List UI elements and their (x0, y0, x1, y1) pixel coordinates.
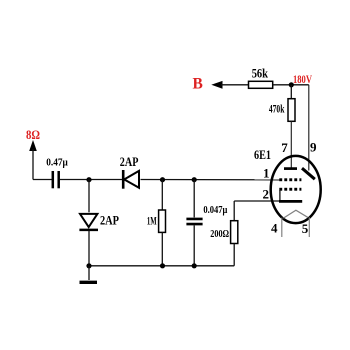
wire pin 5 (308, 217, 310, 237)
wire output corner to C1 (33, 179, 52, 181)
node junction HT (289, 82, 294, 87)
wire R2 to pin 7 anode (290, 121, 292, 167)
wire junction A down (88, 180, 90, 213)
wire pin 4 (281, 218, 283, 237)
wire R1 to bottom rail (161, 232, 163, 265)
svg-text:0.047μ: 0.047μ (203, 205, 227, 216)
svg-text:470k: 470k (269, 103, 285, 115)
wire R3 to bottom rail (233, 244, 235, 266)
resistor R2 470k (288, 99, 295, 122)
svg-text:8Ω: 8Ω (26, 127, 40, 142)
svg-text:56k: 56k (252, 66, 268, 80)
tube grid row 1 dots (279, 178, 301, 181)
tube heater filament (283, 210, 307, 218)
wire junction B1 down to R1 (161, 180, 163, 211)
wire C1 to D1 (60, 179, 123, 181)
node junction B2 (192, 177, 197, 182)
resistor R3 200ohm (231, 221, 238, 244)
wire pin2 corner down to R3 (233, 201, 235, 221)
capacitor C2 0.047u (186, 219, 202, 224)
node junction G (86, 263, 91, 268)
tube U1 6E1 envelope (271, 156, 321, 223)
diode D2 2AP vertical (79, 214, 98, 230)
wire bottom rail (89, 265, 234, 267)
wire D1 to tube pin 1 (141, 179, 281, 181)
node junction A (86, 177, 91, 182)
svg-text:180V: 180V (293, 72, 312, 86)
wire HT down to pin 9 (308, 85, 310, 171)
wire junction B2 down to C2 (193, 180, 195, 218)
svg-text:0.47μ: 0.47μ (46, 158, 68, 169)
resistor R4 56k (249, 81, 273, 88)
svg-text:6E1: 6E1 (254, 148, 271, 162)
svg-text:B: B (193, 76, 203, 93)
svg-text:7: 7 (281, 140, 288, 155)
tube target slant bar (pin 9) (302, 168, 315, 179)
svg-text:2AP: 2AP (120, 155, 139, 169)
wire B arrow left (211, 81, 248, 89)
svg-text:200Ω: 200Ω (210, 229, 229, 240)
svg-text:1: 1 (263, 166, 270, 181)
capacitor C1 0.47u (53, 171, 59, 188)
diode D1 2AP horizontal (123, 170, 139, 189)
tube grid row 2 dots (279, 188, 301, 191)
svg-text:4: 4 (271, 221, 278, 236)
svg-text:2AP: 2AP (100, 214, 119, 228)
wire output arrow up (29, 140, 37, 180)
wire C2 to bottom rail (193, 225, 195, 265)
tube cathode bar (279, 200, 302, 203)
ground (80, 266, 98, 283)
wire 56k to corner (273, 84, 309, 86)
svg-text:1M: 1M (147, 216, 157, 228)
resistor R1 1M (159, 210, 166, 232)
svg-text:9: 9 (310, 139, 317, 154)
wire D2 to bottom rail (88, 231, 90, 266)
wire grid2 stub (279, 190, 281, 201)
node junction B1 (160, 177, 165, 182)
tube anode plate bar (pin 7) (284, 167, 297, 170)
svg-text:2: 2 (263, 187, 270, 202)
svg-text:5: 5 (302, 221, 309, 236)
wire pin 2 horizontal (234, 200, 280, 202)
node junction G2 (192, 263, 197, 268)
wire HT junction to R2 (290, 85, 292, 99)
node junction G1 (160, 263, 165, 268)
